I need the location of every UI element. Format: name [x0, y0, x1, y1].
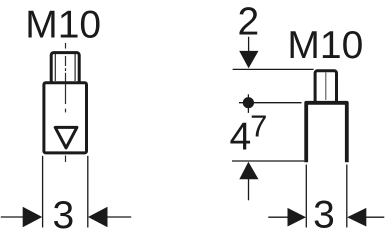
right fitting: stub centerline — [325, 73, 327, 101]
right fitting: channel (U-bracket) outline — [306, 103, 347, 163]
left dim 3: arrow pointing left — [88, 207, 108, 227]
right dim 3: leader line left — [268, 216, 288, 218]
left fitting: centerline dash at stub base — [65, 73, 67, 82]
left fitting: threaded stub outline — [51, 53, 79, 84]
left fitting: centerline dot in body — [65, 109, 67, 113]
svg-text:4: 4 — [230, 116, 252, 159]
svg-text:3: 3 — [53, 194, 75, 232]
left dim 3: extension line right — [87, 156, 89, 228]
left fitting: centerline dash in stub — [65, 56, 67, 66]
svg-text:M10: M10 — [287, 24, 363, 67]
left dim 3: leader line right — [107, 216, 131, 218]
left fitting: valve body outline — [44, 83, 87, 153]
left fitting: centerline dash below body — [65, 156, 67, 163]
right dim 4.7: reference line to channel top — [239, 102, 302, 104]
right dim 4.7: reference tick through dot — [247, 94, 249, 113]
right dim 4.7: dimension line tail — [248, 179, 250, 200]
right fitting: threaded stub outline — [315, 71, 336, 103]
left fitting: thread line left — [54, 54, 56, 81]
right dim 2: extension line from stub top — [233, 68, 314, 70]
left fitting: centerline long dash in body — [65, 83, 67, 104]
left dim 3: arrow pointing right — [23, 207, 43, 227]
left fitting: centerline dash above stub — [65, 43, 67, 49]
right dim 3: extension line right — [346, 165, 348, 228]
svg-text:M10: M10 — [25, 3, 101, 46]
right dim 4.7: extension line at leg bottom — [232, 160, 304, 162]
right dim 3: arrow pointing left — [347, 208, 366, 227]
svg-text:7: 7 — [250, 109, 267, 144]
right dim 4.7: arrow pointing up — [239, 162, 258, 180]
left fitting: check-valve triangle symbol — [55, 127, 77, 147]
right dim 3: extension line left — [305, 165, 307, 228]
right dim 3: leader line right — [366, 216, 385, 218]
right dim 2: dimension line — [248, 37, 250, 52]
right dim 2: arrow pointing down — [239, 51, 258, 68]
left fitting: centerline dot in stub — [65, 68, 67, 71]
left dim 3: extension line left — [42, 156, 44, 228]
right dim 3: arrow pointing right — [288, 208, 307, 227]
right dim 4.7: reference dot — [243, 97, 254, 108]
left fitting: thread line right — [74, 54, 76, 81]
left dim 3: leader line left — [1, 216, 24, 218]
svg-text:3: 3 — [313, 194, 335, 233]
